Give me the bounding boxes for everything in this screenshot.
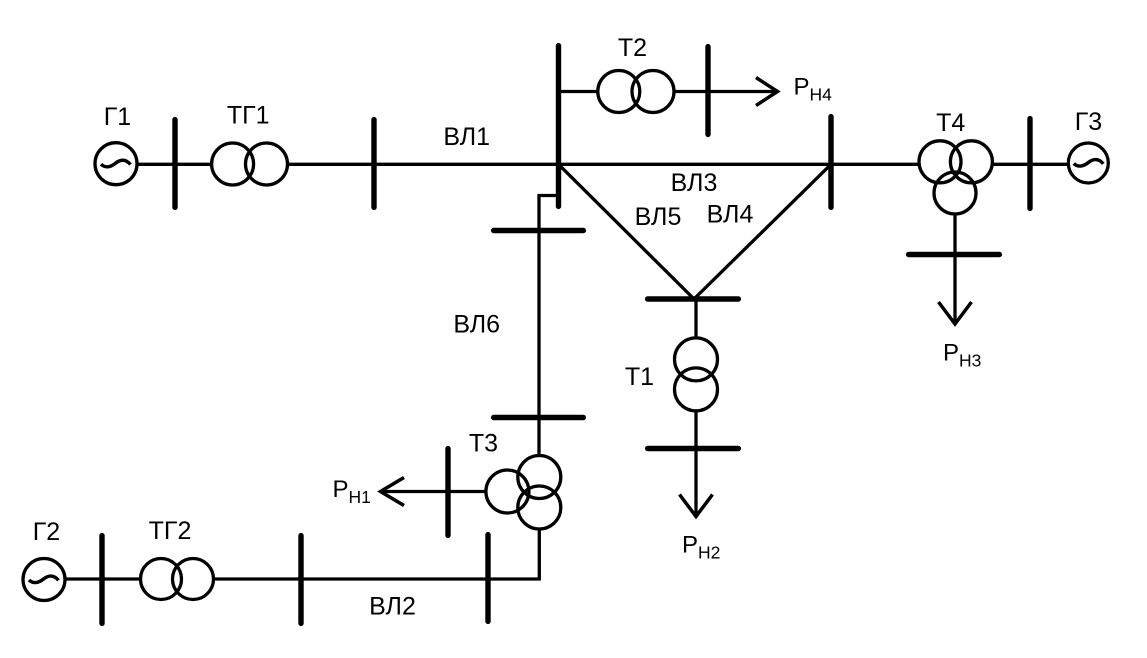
svg-text:ТГ2: ТГ2 xyxy=(149,517,192,545)
transformer Т2 xyxy=(598,71,674,113)
transformer ТГ1 xyxy=(212,143,288,185)
wire ВЛ1 xyxy=(288,163,559,166)
busbar ВЛ2 right xyxy=(485,535,490,622)
svg-text:Г2: Г2 xyxy=(33,518,60,546)
busbar ВЛ6 upper xyxy=(494,228,584,233)
busbar below Т1 xyxy=(648,446,739,451)
wire Т4 to busbar xyxy=(953,213,956,255)
wire node1 to Т2 xyxy=(556,90,599,93)
busbar node 3 (right junction) xyxy=(828,117,833,208)
svg-text:ВЛ1: ВЛ1 xyxy=(443,123,490,151)
svg-text:ВЛ6: ВЛ6 xyxy=(453,311,500,339)
arrow Р_Н4 xyxy=(756,78,778,106)
wire ВЛ3 xyxy=(559,163,921,166)
wire ВЛ4 (diagonal) xyxy=(694,164,831,299)
arrow Р_Н1 xyxy=(381,478,405,506)
svg-text:Т3: Т3 xyxy=(469,430,498,458)
transformer Т3 xyxy=(486,456,561,530)
wire Т3 to load Р_Н1 xyxy=(382,490,487,493)
busbar at ТГ1 line side xyxy=(371,120,376,208)
svg-text:Т1: Т1 xyxy=(625,363,654,391)
busbar ВЛ6 lower xyxy=(494,415,584,420)
busbar at Г2 xyxy=(99,536,104,624)
svg-text:ТГ1: ТГ1 xyxy=(227,102,270,130)
wire ВЛ6 (step from node1 down) xyxy=(539,196,556,457)
arrow Р_Н3 xyxy=(939,255,972,325)
wire Т3 to ВЛ2 (corner) xyxy=(215,528,539,580)
wire Г1 to ТГ1 xyxy=(138,163,213,166)
wire Г2 to ТГ2 xyxy=(65,577,143,580)
wire Т4 to Г3 xyxy=(991,163,1070,166)
generator Г3 xyxy=(1068,143,1108,183)
svg-text:ВЛ4: ВЛ4 xyxy=(707,201,754,229)
wire node2 to Т1 xyxy=(694,299,697,339)
busbar at ТГ2 line side xyxy=(298,536,303,624)
busbar node 1 (junction) xyxy=(556,46,561,207)
generator Г1 xyxy=(95,143,137,185)
svg-text:ВЛ2: ВЛ2 xyxy=(369,593,416,621)
transformer ТГ2 xyxy=(141,559,214,600)
transformer Т1 xyxy=(675,338,718,411)
wire ВЛ5 (diagonal) xyxy=(559,164,695,299)
svg-text:Т2: Т2 xyxy=(618,34,647,62)
busbar at Г1 xyxy=(172,120,177,208)
svg-text:Г1: Г1 xyxy=(104,103,131,131)
arrow Р_Н2 xyxy=(680,449,713,517)
busbar at Г3 xyxy=(1027,119,1032,209)
svg-text:Г3: Г3 xyxy=(1075,108,1102,136)
wire Т2 to load Р_Н4 xyxy=(674,90,777,93)
busbar at Т2 load side xyxy=(705,47,710,135)
busbar node 2 (apex) xyxy=(648,296,739,301)
wire Т1 to busbar xyxy=(694,410,697,449)
busbar below Т4 xyxy=(909,252,1000,257)
svg-text:ВЛ5: ВЛ5 xyxy=(635,203,682,231)
transformer Т4 xyxy=(919,141,992,214)
busbar at Т3 load side xyxy=(445,449,450,536)
generator Г2 xyxy=(23,559,65,601)
svg-text:Т4: Т4 xyxy=(936,109,965,137)
svg-text:ВЛ3: ВЛ3 xyxy=(671,169,718,197)
